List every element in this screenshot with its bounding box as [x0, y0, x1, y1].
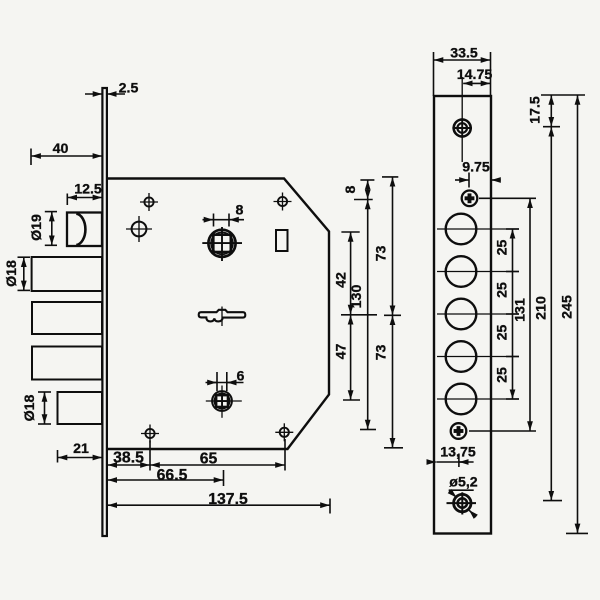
- dim 8 body-top: [354, 180, 374, 200]
- svg-text:12.5: 12.5: [74, 182, 102, 198]
- lock case outline: [107, 179, 329, 450]
- dim 25 chain: [506, 229, 519, 399]
- svg-text:14.75: 14.75: [457, 67, 493, 83]
- dim 13.75: [430, 454, 474, 468]
- svg-text:21: 21: [73, 441, 89, 457]
- cylinder centerlines: [437, 229, 519, 399]
- dim 12.5: [67, 194, 102, 206]
- dim 40: [31, 149, 102, 166]
- countersunk hole: [447, 492, 477, 514]
- svg-text:25: 25: [495, 282, 511, 298]
- dim 73 lower: [384, 316, 403, 448]
- svg-text:25: 25: [495, 240, 511, 256]
- dim 2.5: [85, 93, 125, 95]
- dim 137.5: [108, 499, 330, 514]
- svg-text:25: 25: [495, 367, 511, 383]
- cylinder hole 4: [446, 341, 477, 372]
- cylinder hole 3: [446, 299, 477, 330]
- faceplate side view: [102, 88, 107, 536]
- dim 17.5: [541, 95, 585, 127]
- svg-text:210: 210: [534, 296, 550, 320]
- svg-text:245: 245: [560, 295, 576, 319]
- dim 65: [151, 439, 286, 471]
- spindle hub: [202, 227, 242, 261]
- phillips screw top: [462, 191, 478, 207]
- faceplate front view: [434, 96, 491, 534]
- phillips screw bottom: [451, 423, 467, 439]
- deadbolt row 3: [32, 347, 102, 380]
- centerline faceplate: [461, 77, 463, 162]
- dim 6 lower spindle: [206, 372, 244, 391]
- dim 210: [543, 127, 562, 500]
- dim D19: [45, 212, 57, 246]
- svg-text:40: 40: [53, 141, 69, 157]
- svg-text:17.5: 17.5: [528, 96, 544, 124]
- dim 8 hub: [203, 214, 245, 227]
- dim 21: [58, 450, 102, 463]
- dim D18 row4: [38, 392, 51, 424]
- latch bolt: [67, 213, 102, 247]
- dim 73 upper: [382, 177, 401, 315]
- dim D18 row1: [18, 257, 31, 290]
- svg-text:Ø18: Ø18: [22, 394, 38, 421]
- svg-text:73: 73: [374, 246, 390, 262]
- deadbolt row 2: [32, 302, 102, 334]
- dim 245: [566, 96, 588, 534]
- svg-text:Ø19: Ø19: [29, 214, 45, 241]
- screw hole top-left: [140, 193, 158, 211]
- svg-text:65: 65: [200, 451, 218, 468]
- keyhole profile: [199, 307, 246, 327]
- dim 33.5: [434, 52, 491, 96]
- svg-text:47: 47: [334, 344, 350, 360]
- deadbolt row 1: [32, 257, 102, 291]
- lower spindle: [212, 391, 232, 411]
- dim 38.5: [108, 441, 150, 471]
- cylinder hole 5: [446, 384, 477, 415]
- dim 9.75: [455, 173, 501, 188]
- dim 130: [360, 200, 376, 430]
- screw hole bottom-right: [275, 423, 293, 441]
- screw hole bottom-left: [141, 425, 159, 443]
- svg-text:33.5: 33.5: [450, 46, 478, 62]
- svg-text:66.5: 66.5: [157, 467, 188, 484]
- svg-text:8: 8: [343, 185, 359, 193]
- dim 14.75: [463, 82, 490, 84]
- svg-text:38.5: 38.5: [113, 450, 144, 467]
- cylinder hole 1: [446, 214, 477, 245]
- screw hole top-right: [274, 193, 292, 211]
- svg-text:9.75: 9.75: [462, 160, 490, 176]
- svg-text:131: 131: [513, 298, 529, 322]
- cylinder hole 2: [446, 256, 477, 287]
- large hole: [126, 216, 152, 242]
- stop tab rect: [276, 230, 288, 251]
- svg-text:42: 42: [334, 272, 350, 288]
- svg-text:ø5,2: ø5,2: [449, 475, 477, 491]
- svg-text:8: 8: [236, 203, 244, 219]
- svg-text:13,75: 13,75: [440, 445, 476, 461]
- svg-text:2.5: 2.5: [119, 81, 139, 97]
- svg-text:137.5: 137.5: [208, 491, 248, 508]
- dim 42: [341, 232, 359, 314]
- dim 47: [341, 315, 377, 400]
- svg-text:25: 25: [495, 325, 511, 341]
- deadbolt row 4: [58, 392, 103, 424]
- svg-text:6: 6: [237, 369, 245, 385]
- svg-text:73: 73: [374, 345, 390, 361]
- top mounting hole: [452, 118, 472, 138]
- dim 131: [469, 198, 536, 431]
- svg-text:Ø18: Ø18: [4, 260, 20, 287]
- dim 66.5: [108, 470, 224, 486]
